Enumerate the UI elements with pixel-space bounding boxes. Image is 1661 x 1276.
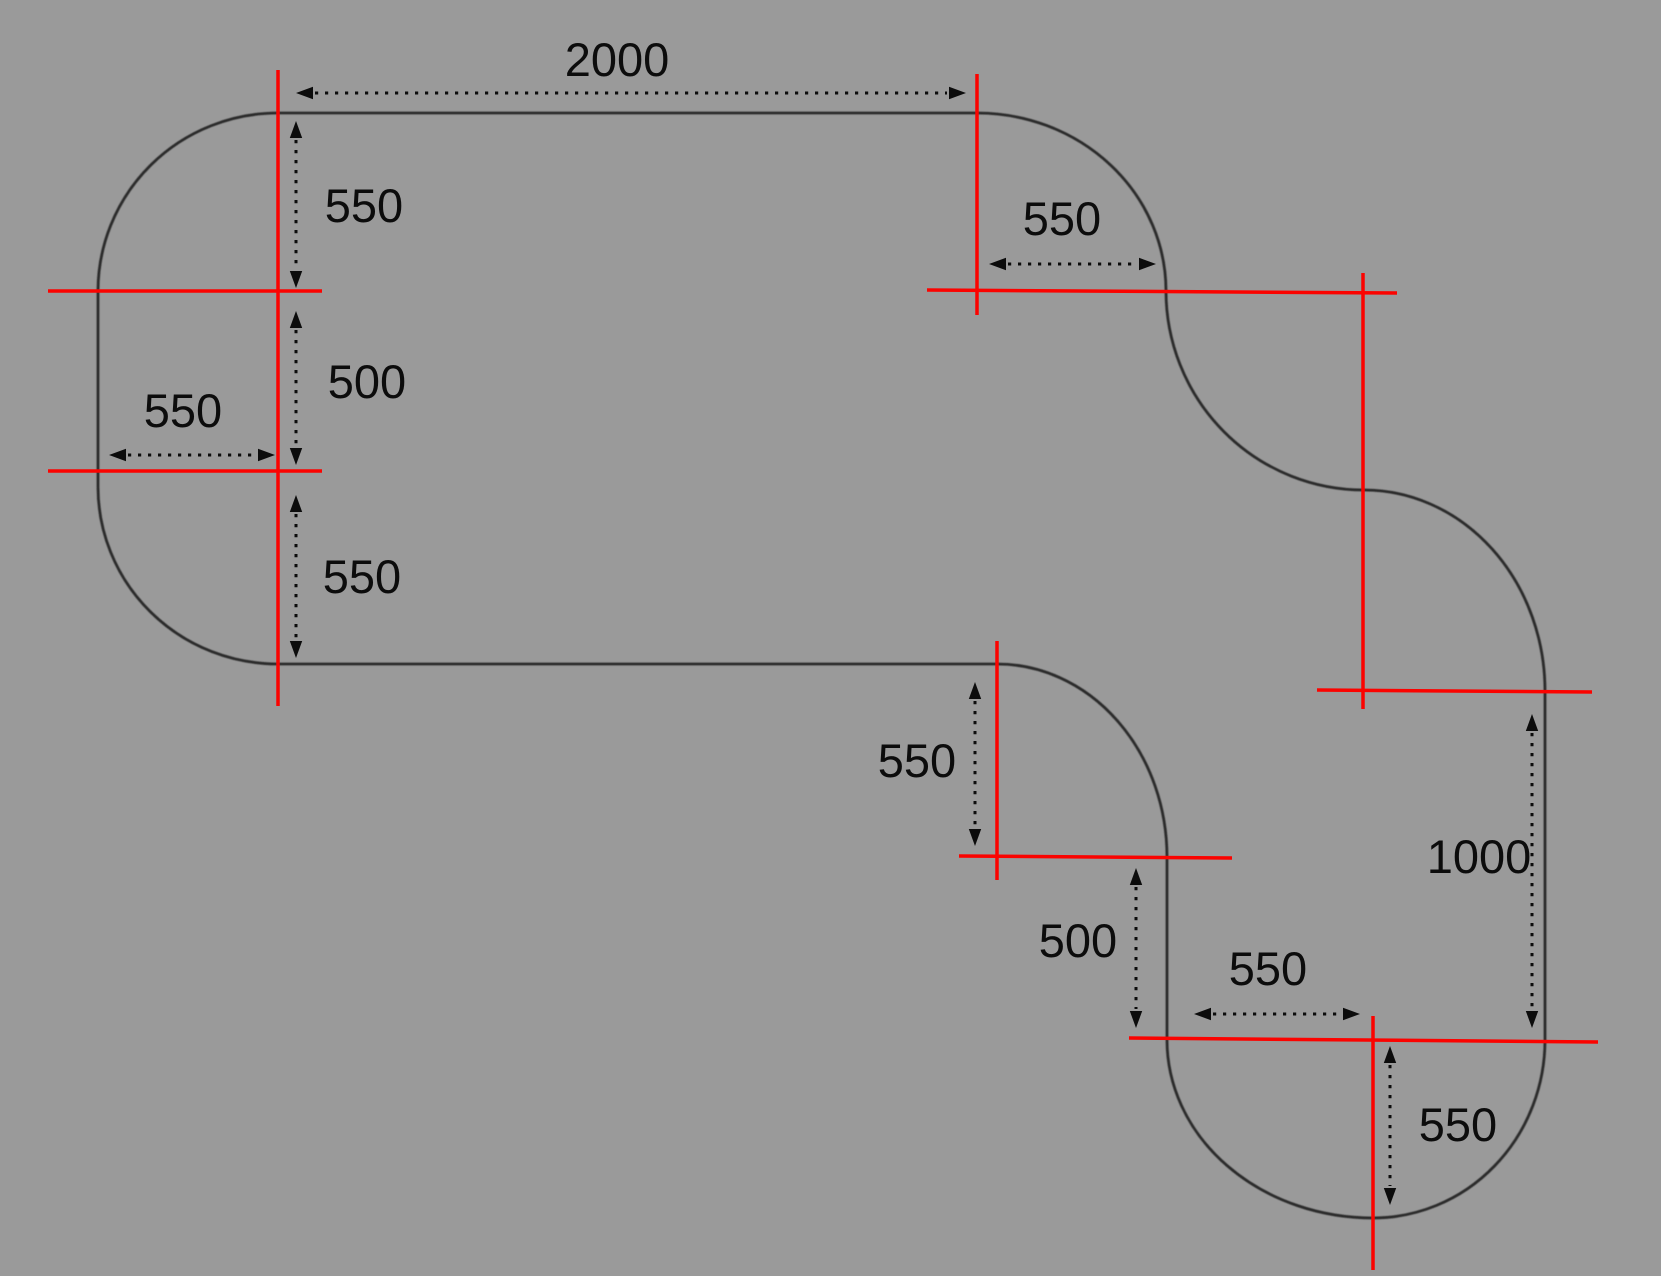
dim 2000 top — [296, 87, 966, 99]
red hline y691 — [1317, 690, 1592, 692]
red hline y471 left — [48, 469, 322, 473]
svg-text:550: 550 — [1229, 942, 1307, 995]
red vline x977 — [975, 74, 979, 315]
svg-text:550: 550 — [1023, 192, 1101, 245]
svg-text:550: 550 — [1419, 1098, 1497, 1151]
red hline y1040 — [1129, 1038, 1598, 1042]
svg-text:2000: 2000 — [565, 33, 670, 86]
dim 1000 right vertical — [1526, 714, 1538, 1028]
dim 500 lower-middle vertical — [1130, 868, 1142, 1028]
svg-text:500: 500 — [1039, 914, 1117, 967]
red hline y857 — [959, 856, 1232, 858]
track outline (closed loop) — [98, 113, 1545, 1218]
red vline x1363 — [1361, 273, 1365, 709]
dim 550 middle vertical — [969, 682, 981, 846]
dim 500 left vertical — [290, 311, 302, 465]
svg-text:550: 550 — [878, 734, 956, 787]
red vline x278 — [276, 70, 280, 706]
svg-text:500: 500 — [328, 355, 406, 408]
dim 550 left horizontal — [109, 449, 275, 461]
svg-text:1000: 1000 — [1427, 830, 1532, 883]
dimension lines (dotted with arrowheads) — [109, 87, 1538, 1205]
red hline y291 left — [48, 289, 322, 293]
svg-text:550: 550 — [144, 384, 222, 437]
red vline x997 — [995, 641, 999, 880]
dim 550 bottom horizontal — [1194, 1008, 1360, 1020]
red hline y291 right — [927, 290, 1397, 293]
svg-text:550: 550 — [323, 550, 401, 603]
svg-text:550: 550 — [325, 179, 403, 232]
red vline x1373 — [1371, 1016, 1375, 1270]
dim 550 lower-left vertical — [290, 495, 302, 658]
dim 550 bottom-right vertical — [1384, 1046, 1396, 1205]
dim 550 top-right horizontal — [989, 258, 1156, 270]
dim 550 top-left vertical — [290, 121, 302, 288]
